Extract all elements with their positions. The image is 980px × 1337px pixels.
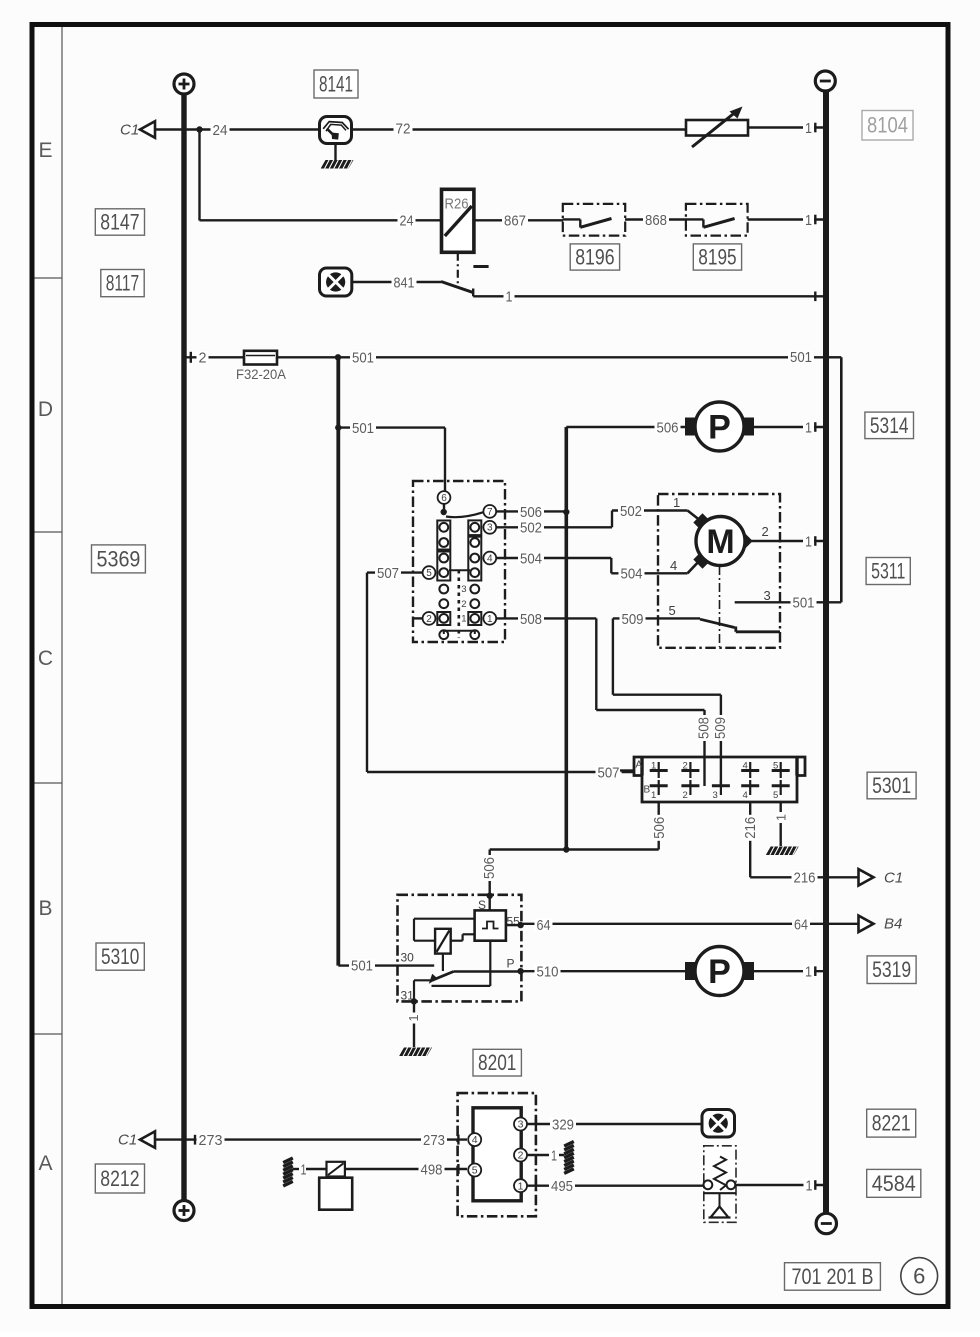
svg-text:8195: 8195 [698, 244, 736, 269]
svg-text:502: 502 [620, 503, 642, 520]
svg-text:868: 868 [645, 212, 667, 229]
svg-text:C1: C1 [118, 1132, 137, 1149]
svg-text:1: 1 [806, 1177, 813, 1194]
svg-text:5319: 5319 [872, 957, 911, 982]
svg-text:24: 24 [213, 122, 228, 139]
svg-text:498: 498 [421, 1161, 443, 1178]
svg-text:504: 504 [520, 550, 542, 567]
svg-text:8196: 8196 [575, 244, 614, 269]
svg-text:1: 1 [673, 495, 680, 510]
svg-text:507: 507 [598, 764, 620, 781]
svg-text:1: 1 [551, 1147, 557, 1164]
svg-text:P: P [507, 957, 515, 971]
svg-text:509: 509 [622, 611, 644, 628]
svg-text:3: 3 [518, 1119, 524, 1131]
svg-text:8141: 8141 [319, 71, 353, 96]
svg-text:64: 64 [537, 917, 551, 934]
svg-text:509: 509 [712, 717, 729, 739]
svg-text:501: 501 [793, 595, 815, 612]
svg-text:2: 2 [199, 350, 207, 367]
svg-text:1: 1 [805, 964, 812, 981]
svg-text:504: 504 [621, 566, 643, 583]
svg-text:3: 3 [713, 790, 718, 801]
svg-text:501: 501 [352, 350, 374, 367]
svg-text:8201: 8201 [478, 1050, 516, 1075]
svg-text:1: 1 [805, 120, 812, 137]
svg-text:P: P [708, 409, 731, 447]
svg-text:5369: 5369 [97, 546, 141, 571]
svg-text:24: 24 [400, 213, 414, 230]
svg-text:5301: 5301 [872, 773, 911, 798]
svg-text:216: 216 [742, 817, 759, 839]
svg-text:502: 502 [520, 520, 542, 537]
svg-text:C1: C1 [884, 870, 903, 887]
svg-text:6: 6 [913, 1264, 925, 1289]
svg-text:506: 506 [520, 504, 542, 521]
svg-text:8147: 8147 [100, 209, 139, 234]
svg-text:5: 5 [773, 761, 778, 772]
svg-text:B4: B4 [884, 916, 902, 933]
svg-text:1: 1 [506, 289, 513, 306]
svg-text:4584: 4584 [872, 1171, 916, 1196]
svg-text:8212: 8212 [100, 1166, 139, 1191]
svg-text:1: 1 [487, 614, 493, 625]
svg-text:1: 1 [773, 814, 788, 821]
svg-text:701 201 B: 701 201 B [791, 1264, 873, 1289]
svg-text:3: 3 [461, 584, 466, 595]
svg-text:8117: 8117 [106, 271, 139, 296]
svg-text:1: 1 [805, 533, 812, 550]
svg-text:1: 1 [406, 1015, 421, 1022]
svg-text:1: 1 [651, 790, 656, 801]
svg-text:2: 2 [426, 614, 432, 625]
svg-text:7: 7 [487, 507, 493, 518]
svg-text:B: B [38, 897, 52, 920]
svg-text:841: 841 [394, 274, 415, 291]
svg-text:F32-20A: F32-20A [236, 366, 287, 382]
svg-text:329: 329 [552, 1116, 574, 1133]
svg-text:507: 507 [377, 565, 399, 582]
svg-text:2: 2 [683, 790, 688, 801]
svg-text:M: M [706, 523, 734, 561]
svg-text:72: 72 [396, 120, 411, 137]
svg-text:5: 5 [773, 790, 778, 801]
svg-text:A: A [636, 760, 643, 771]
svg-text:273: 273 [199, 1132, 223, 1149]
svg-text:1: 1 [301, 1161, 307, 1178]
svg-text:4: 4 [487, 553, 493, 564]
svg-text:8104: 8104 [867, 113, 908, 138]
svg-text:506: 506 [657, 419, 679, 436]
svg-text:495: 495 [551, 1178, 573, 1195]
svg-text:4: 4 [472, 1134, 478, 1146]
svg-text:2: 2 [461, 599, 466, 610]
svg-text:R26: R26 [445, 197, 469, 213]
svg-text:D: D [38, 398, 53, 421]
svg-text:4: 4 [743, 790, 748, 801]
svg-text:C1: C1 [120, 122, 139, 139]
svg-text:1: 1 [461, 614, 466, 625]
svg-text:3: 3 [764, 588, 771, 603]
svg-text:C: C [38, 647, 53, 670]
svg-text:5: 5 [669, 603, 676, 618]
svg-text:1: 1 [805, 419, 812, 436]
svg-text:867: 867 [504, 213, 526, 230]
svg-text:4: 4 [743, 761, 748, 772]
svg-text:508: 508 [520, 611, 542, 628]
svg-text:501: 501 [352, 420, 374, 437]
svg-text:2: 2 [518, 1150, 524, 1162]
svg-text:4: 4 [670, 558, 677, 573]
svg-text:216: 216 [794, 870, 816, 887]
svg-text:A: A [38, 1152, 52, 1175]
svg-text:P: P [708, 953, 731, 991]
svg-text:1: 1 [651, 761, 656, 772]
svg-text:B: B [644, 785, 651, 796]
svg-text:501: 501 [790, 349, 812, 366]
svg-text:30: 30 [401, 951, 415, 965]
svg-text:510: 510 [537, 964, 559, 981]
svg-text:506: 506 [651, 817, 668, 839]
svg-text:5314: 5314 [870, 413, 909, 438]
svg-text:1: 1 [518, 1180, 524, 1192]
svg-text:508: 508 [695, 717, 712, 739]
svg-text:64: 64 [794, 917, 808, 934]
svg-text:2: 2 [683, 761, 688, 772]
svg-text:2: 2 [762, 524, 769, 539]
svg-text:3: 3 [487, 523, 493, 534]
svg-text:506: 506 [481, 857, 498, 879]
svg-text:1: 1 [805, 212, 812, 229]
svg-text:6: 6 [441, 493, 447, 504]
svg-text:5: 5 [472, 1165, 478, 1177]
svg-text:5310: 5310 [101, 944, 139, 969]
svg-text:5: 5 [426, 568, 432, 579]
svg-text:501: 501 [351, 958, 373, 975]
svg-text:5311: 5311 [871, 558, 905, 583]
svg-text:E: E [38, 139, 52, 162]
svg-text:273: 273 [423, 1132, 445, 1149]
svg-text:8221: 8221 [872, 1111, 911, 1136]
